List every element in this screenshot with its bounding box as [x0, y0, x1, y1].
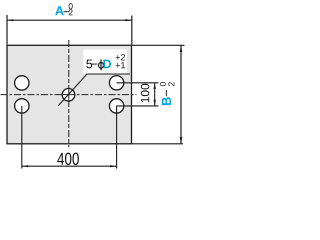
label phi symbol — [99, 59, 104, 70]
extension line B top (plate top edge extended right) — [132, 44, 185, 46]
center hole crosshair vertical — [68, 88, 70, 102]
extension line 100 bottom (from lower right hole) — [117, 105, 159, 107]
arrow B bottom — [180, 137, 183, 143]
hole label D — [103, 60, 111, 69]
center line vertical through center hole — [68, 40, 70, 147]
arrow B top — [180, 46, 183, 52]
extension line A left — [6, 15, 8, 45]
arrow A left — [7, 19, 13, 21]
dimension line A — [7, 19, 132, 21]
arrow 400 left — [22, 165, 28, 167]
dimension text 100 rotated — [141, 84, 149, 103]
B minus — [165, 90, 168, 96]
arrow 400 right — [110, 165, 116, 167]
plate outline — [7, 45, 132, 144]
hole lower right — [109, 99, 123, 113]
center line horizontal — [1, 94, 137, 96]
arrow A right — [125, 19, 131, 21]
hole count label 5 — [86, 60, 92, 69]
hole center phi-D — [62, 89, 75, 102]
extension line B bottom (plate bottom edge extended right) — [132, 143, 184, 145]
dimension line 400 — [22, 165, 117, 167]
extension line A right — [131, 16, 133, 45]
arrow 100 bottom — [154, 100, 156, 106]
dimension text A — [55, 6, 64, 15]
dimension line 100 — [154, 83, 156, 106]
dimension text B rotated — [160, 82, 174, 105]
extension line 400 right (from lower right hole) — [116, 106, 118, 169]
hole upper left — [15, 76, 29, 90]
label background box — [84, 50, 128, 74]
dimension line B — [180, 46, 182, 144]
label dash — [91, 63, 97, 66]
tolerance A upper 0 — [69, 3, 73, 9]
dimension text A minus — [64, 10, 70, 13]
arrow 100 top — [154, 83, 156, 89]
extension line 400 left (from lower left hole) — [21, 106, 23, 169]
tolerance B lower 2 — [168, 82, 174, 86]
center hole crosshair horizontal — [62, 94, 76, 96]
hole lower left — [15, 99, 29, 113]
tolerance B upper 0 — [160, 82, 166, 86]
tolerance D upper +2 — [116, 54, 125, 60]
hole upper right — [109, 76, 123, 90]
leader line to center hole — [58, 74, 130, 106]
letter B — [162, 97, 171, 105]
tolerance A lower 2 — [69, 9, 73, 15]
extension line 100 top (from upper right hole) — [117, 82, 159, 84]
tolerance D lower +1 — [116, 62, 125, 68]
dimension text 400 — [57, 153, 79, 165]
